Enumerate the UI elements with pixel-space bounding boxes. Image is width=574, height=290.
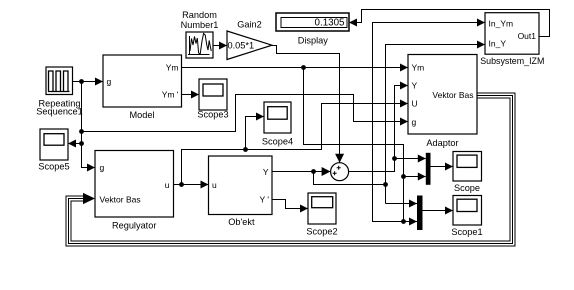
wire top mux to Scope [431,166,454,168]
svg-text:g: g [100,162,105,172]
block Adaptor [408,55,477,135]
label Random Number1 [181,10,219,30]
svg-text:Display: Display [298,35,329,45]
wire u branch to Scope4 [246,117,265,150]
wire Ym: Model to Adaptor [182,67,409,69]
node sum out to top mux junction [392,156,397,161]
wire bottom mux to Scope1 [423,210,454,212]
scope block Scope3 [199,79,227,110]
wire sum output to Adaptor Y [349,86,408,172]
scope block Scope [453,152,482,182]
svg-text:Y ': Y ' [259,195,269,205]
wire g vertical down [82,82,96,168]
wire Gain2 output to sum top [272,46,340,163]
wire Ym to bottom mux input 2 and up to In_Ym [373,23,486,222]
svg-text:Scope4: Scope4 [262,137,293,147]
svg-text:g: g [107,77,112,87]
svg-text:u: u [212,180,217,190]
svg-text:Ob'ekt: Ob'ekt [228,217,255,227]
node g junction for long branch [79,129,84,134]
block Model [103,55,182,107]
svg-text:Model: Model [129,110,154,120]
wire Y: Ob'ekt to sum [272,171,331,173]
wire Y branch down to In_Y vertical [314,172,386,185]
wire Ym to top mux input 2 [404,176,426,178]
wire g: Repeating Sequence1 to Model [73,81,104,83]
wire Y vertical: up to In_Y, down to bottom mux input 1 [386,45,486,204]
node Ym bottom junction [401,219,406,224]
svg-text:Number1: Number1 [181,20,219,30]
gain block Gain2 [227,31,272,60]
subsystem block Subsystem_IZM [485,13,539,55]
svg-text:Out1: Out1 [518,31,537,41]
sum block [331,163,349,181]
svg-text:Vektor Bas: Vektor Bas [432,90,473,100]
node Y vertical junction [383,182,388,187]
wire Random Number1 to Gain2 [213,45,227,47]
svg-text:Gain2: Gain2 [237,19,262,29]
wire g long branch to Adaptor g [82,95,409,132]
node g junction at source [79,79,84,84]
wire Vektor Bas bus (triple line) Adaptor to Regulyator [66,93,515,246]
block Regulyator [95,151,174,218]
block Ob'ekt [209,156,273,215]
svg-text:Ym: Ym [166,63,179,73]
display block Display [276,13,349,31]
node u junction [179,182,184,187]
svg-text:0.1305: 0.1305 [315,18,346,29]
svg-text:Vektor Bas: Vektor Bas [100,194,141,204]
big arrow into Regulyator Vektor Bas [83,193,95,204]
node u to Scope4 junction [243,147,248,152]
svg-text:Regulyator: Regulyator [112,220,156,230]
scope block Scope4 [264,102,291,133]
svg-text:Adaptor: Adaptor [426,138,458,148]
svg-text:Scope1: Scope1 [451,227,482,237]
scope block Scope1 [453,196,482,226]
source block Random Number1 [186,32,213,58]
svg-text:u: u [165,180,170,190]
svg-text:Sequence1: Sequence1 [36,106,83,116]
svg-text:U: U [412,99,418,109]
svg-text:Subsystem_IZM: Subsystem_IZM [480,56,544,66]
svg-text:In_Ym: In_Ym [489,19,514,29]
mux block Mux1 (bottom) [417,196,423,231]
source block Repeating Sequence1 [46,67,73,95]
svg-text:In_Y: In_Y [489,39,507,49]
wire Y': Ob'ekt to Scope2 [272,200,308,209]
svg-text:Scope5: Scope5 [38,162,69,172]
node Y junction [311,169,316,174]
svg-text:Scope2: Scope2 [306,227,337,237]
svg-text:g: g [412,117,417,127]
svg-text:Scope3: Scope3 [197,110,228,120]
svg-text:Ym ': Ym ' [162,90,179,100]
svg-text:Scope: Scope [454,183,480,193]
svg-text:Random: Random [182,10,217,20]
node Ym junction [301,65,306,70]
mux block Mux (top) [426,153,431,185]
wire sum out to top mux input 1 [395,158,426,160]
svg-text:0.05*1: 0.05*1 [228,41,255,51]
node Ym to top mux junction [401,174,406,179]
wire Y to bottom mux input 1 [386,203,418,205]
wire g branch to Scope5 (flipped, arrow points left) [68,143,82,145]
scope block Scope2 [308,193,336,224]
wire Ym': Model to Scope3 [182,94,200,96]
svg-text:Y: Y [412,81,418,91]
wire u branch up and right to Adaptor U [182,104,409,185]
scope block Scope5 (flipped) [40,129,68,160]
label Repeating Sequence1 [36,98,83,116]
svg-text:Y: Y [263,167,269,177]
wire Ym branch down to muxes and Subsystem [304,68,404,222]
wire Out1 wrap to Display [349,10,550,37]
svg-text:Ym: Ym [412,63,425,73]
wire u: Regulyator to Ob'ekt [174,184,209,186]
